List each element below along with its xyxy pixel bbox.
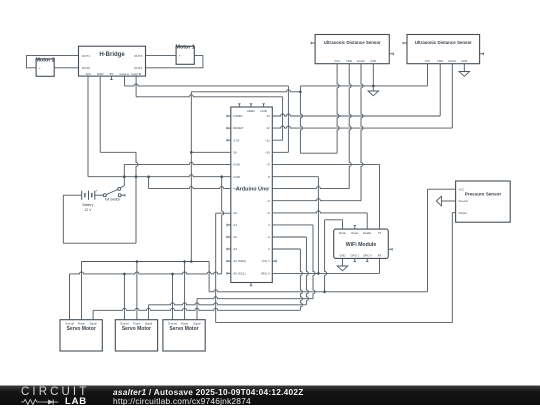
wire 5V trunk (Arduino 5V / H-top power riser / sensor feed, net 5V) <box>191 90 300 262</box>
svg-text:Arduino Uno: Arduino Uno <box>236 186 269 192</box>
WiFi GPIO2 pin stub (no connect) <box>354 258 356 261</box>
wire sensor U3 GND pin to ground <box>463 64 465 72</box>
wire WiFi RX pin down <box>379 258 381 273</box>
kill switch SW1 <box>103 186 125 197</box>
wire kill switch riser to Arduino GND <box>123 177 125 186</box>
svg-text:+: + <box>39 66 41 70</box>
wire ground row v3 to sensor U3 VCC <box>300 64 427 86</box>
wire battery trunk vertical <box>136 152 138 243</box>
ground symbol under sensor U3 <box>459 72 470 77</box>
svg-text:13: 13 <box>266 114 270 118</box>
junction ground bus / servo2 ground <box>123 273 126 276</box>
junction power bus / servo3 power <box>183 260 186 263</box>
svg-text:GND: GND <box>233 175 241 179</box>
svg-text:Pressure Sensor: Pressure Sensor <box>465 192 502 197</box>
wire servo2 Power drop <box>136 262 138 320</box>
junction Vin riser / 12V line <box>147 175 150 178</box>
wire Arduino (RX)0 to junction <box>272 272 318 274</box>
motor M2 <box>36 59 54 76</box>
servo motor M3 <box>60 320 102 351</box>
wire servo2 Ground drop <box>123 274 125 320</box>
svg-text:Ground: Ground <box>458 199 468 203</box>
wire pressure sensor Ground pin <box>441 200 455 202</box>
wire Arduino pin 4 to servo3 Signal (net S3) <box>197 225 315 320</box>
WiFi GPIO0 pin stub (no connect) <box>366 258 368 261</box>
Arduino Uno U4 <box>231 107 272 283</box>
wire battery negative loop <box>63 195 136 243</box>
svg-text:Battery: Battery <box>83 203 94 207</box>
wire OUT2 to motor2 right terminal <box>54 67 78 69</box>
junction sensor U2 GND / ground row <box>372 85 375 88</box>
wire Arduino pin 2 to servo1 Signal (net S1) <box>93 249 302 320</box>
svg-text:Motor 2: Motor 2 <box>35 57 54 63</box>
wire WiFi Power to power bus (net 5V) <box>325 220 343 292</box>
sensor U2 right pin stub <box>389 53 393 55</box>
battery V1 12V <box>82 191 95 200</box>
svg-text:Servo Motor: Servo Motor <box>67 326 96 332</box>
svg-text:12: 12 <box>266 126 270 130</box>
svg-text:A4 (SDA): A4 (SDA) <box>233 259 246 263</box>
wire OUT3 to motor1 + terminal <box>146 55 177 57</box>
wire servo3 Ground drop <box>172 274 174 320</box>
svg-text:~11: ~11 <box>265 138 270 142</box>
svg-text:A1: A1 <box>233 223 237 227</box>
ultrasonic distance sensor U2 <box>315 35 389 64</box>
Arduino left pin stub IOREF (no connect) <box>227 115 231 117</box>
Arduino left pin stub A1 (no connect) <box>227 224 231 226</box>
H-bridge 5V pin stub (no connect) <box>111 76 113 80</box>
Arduino left pin stub RESET (no connect) <box>227 127 231 129</box>
svg-text:12 V: 12 V <box>84 208 92 212</box>
svg-text:GND: GND <box>233 163 241 167</box>
Arduino left pin stub A4 (SDA) (no connect) <box>227 260 231 262</box>
Arduino bottom GND pin stub <box>250 283 252 286</box>
wire WiFi GND pin to ground <box>342 258 344 266</box>
wire Arduino pin 12 to sensor U3 ECHO <box>272 64 452 128</box>
svg-text:A3: A3 <box>233 247 237 251</box>
svg-text:OUT2: OUT2 <box>82 66 91 70</box>
Arduino left pin stub A5 (SCL) (no connect) <box>227 272 231 274</box>
junction 5V trunk / servo power bus <box>190 260 193 263</box>
Arduino top pin stub x=239.3 <box>238 104 240 107</box>
wire Arduino Vin to 12V line <box>149 177 231 189</box>
ultrasonic distance sensor U3 <box>407 35 480 64</box>
svg-text:Ultrasonic Distance Sensor: Ultrasonic Distance Sensor <box>415 40 472 45</box>
svg-text:~6: ~6 <box>266 199 270 203</box>
Arduino left pin stub 3.3V (no connect) <box>227 139 231 141</box>
junction power bus / servo2 power <box>136 260 139 263</box>
wire battery positive to kill switch <box>95 194 104 196</box>
servo motor M5 <box>163 320 205 351</box>
junction battery trunk / 12V line <box>135 175 138 178</box>
H-bridge driver U1 <box>79 46 146 76</box>
Arduino left pin stub A2 (no connect) <box>227 236 231 238</box>
svg-text:A5 (SCL): A5 (SCL) <box>233 271 245 275</box>
motor M1 <box>176 46 194 64</box>
svg-text:H-Bridge: H-Bridge <box>99 52 125 58</box>
wire servo ground bus (net GND) <box>70 177 224 320</box>
wire pin8 trunk vertical <box>317 177 319 274</box>
svg-text:~5: ~5 <box>266 211 270 215</box>
wire H-bridge GND pin jog <box>100 76 136 152</box>
wire sensor U2 TRIG to Arduino pin 7 <box>272 64 351 189</box>
svg-text:A0: A0 <box>233 211 237 215</box>
svg-text:Motor 1: Motor 1 <box>175 45 194 51</box>
CircuitLab footer bar <box>0 385 540 406</box>
ground symbol (left-pointing) at pressure sensor <box>436 196 441 206</box>
svg-text:GND: GND <box>260 109 268 113</box>
svg-text:GND: GND <box>97 72 105 76</box>
svg-text:Kill Switch: Kill Switch <box>105 198 121 202</box>
wire pressure sensor Output to Arduino A0 <box>216 213 456 323</box>
wire Arduino pin ~5 to WiFi Enable <box>272 211 367 229</box>
wire Arduino pin 8 trunk down <box>272 176 318 178</box>
junction kill switch riser / 12V line <box>123 175 126 178</box>
svg-text:12V: 12V <box>85 72 91 76</box>
svg-text:A2: A2 <box>233 235 237 239</box>
svg-text:Ultrasonic Distance Sensor: Ultrasonic Distance Sensor <box>324 40 381 45</box>
wire kill switch riser upper to GND1 row <box>124 162 231 176</box>
WiFi right side pin stub (no connect) <box>388 248 392 250</box>
svg-text:~3: ~3 <box>266 235 270 239</box>
wire Arduino 5V pin to 5V trunk <box>191 151 231 153</box>
svg-text:(RX) 0: (RX) 0 <box>261 271 270 275</box>
svg-text:Servo Motor: Servo Motor <box>122 326 151 332</box>
svg-text:WiFi Module: WiFi Module <box>346 242 377 248</box>
svg-text:(TX) 1: (TX) 1 <box>261 259 270 263</box>
svg-text:~10: ~10 <box>265 150 270 154</box>
svg-text:~9: ~9 <box>266 163 270 167</box>
ground symbol under sensor U2 <box>368 91 379 96</box>
ground symbol under WiFi module <box>337 266 348 271</box>
svg-text:OUT1: OUT1 <box>82 54 91 58</box>
wire Arduino pin ~9 to WiFi TX <box>272 164 379 229</box>
junction ground riser / Arduino GND wire <box>220 175 223 178</box>
junction ground bus / servo3 ground <box>171 273 174 276</box>
WiFi Reset pin stub (no connect) <box>354 226 356 230</box>
wire junction to WiFi RX <box>318 272 379 274</box>
svg-text:Servo Motor: Servo Motor <box>169 326 198 332</box>
junction WiFi power riser / power bus <box>323 291 326 294</box>
svg-text:5V: 5V <box>233 150 237 154</box>
wire OUT1 to motor2 + terminal (left loop) <box>26 56 78 68</box>
svg-text:IOREF: IOREF <box>233 114 242 118</box>
svg-text:+: + <box>96 189 98 193</box>
wire servo power bus (net 5V) <box>82 189 456 320</box>
sensor U3 left pin stub <box>403 42 407 44</box>
svg-text:RESET: RESET <box>233 126 243 130</box>
svg-text:Output: Output <box>458 211 467 215</box>
svg-text:Input A: Input A <box>119 72 130 76</box>
servo motor M4 <box>115 320 157 351</box>
wire servo3 Power drop <box>184 262 186 320</box>
svg-text:+: + <box>179 54 181 58</box>
wire Arduino pin ~3 to servo2 Signal (net S2) <box>149 237 309 320</box>
Arduino top pin stub x=263.6 <box>263 104 265 107</box>
sensor U2 left pin stub <box>311 42 315 44</box>
svg-text:AREF: AREF <box>247 109 255 113</box>
svg-text:Input B: Input B <box>131 72 141 76</box>
wire Arduino pin 13 to sensor U3 TRIG <box>272 64 440 116</box>
wire H-bridge Input A to Arduino pin ~10 (net IA) <box>125 76 289 152</box>
wire H-bridge 12V pin down to battery net <box>88 76 231 177</box>
Arduino pin (TX)1 stub (no connect) <box>272 260 276 262</box>
wire sensor U2 ECHO to Arduino pin ~6 <box>272 64 363 201</box>
svg-text:3.3V: 3.3V <box>233 138 239 142</box>
Arduino left pin stub A3 (no connect) <box>227 248 231 250</box>
svg-text:OUT4: OUT4 <box>134 66 143 70</box>
pressure sensor U6 <box>456 181 511 222</box>
svg-text:VCC: VCC <box>458 187 464 191</box>
wire sensor U2 GND pin to ground <box>372 64 374 91</box>
junction pin8 / RX0 / WiFi RX <box>317 272 320 275</box>
wire v3 vertical to sensor U2 VCC (net 5V) <box>300 64 339 154</box>
wire H-bridge Input B to Arduino pin ~11 (net IB) <box>136 76 283 140</box>
junction 5V trunk / Arduino 5V wire <box>190 151 193 154</box>
junction 5V trunk top / v3 vertical <box>299 91 302 94</box>
svg-text:Vin: Vin <box>233 187 238 191</box>
sensor U3 right pin stub <box>480 53 484 55</box>
WiFi module U5 <box>334 229 389 258</box>
wire motor1 right terminal to OUT4 <box>146 56 203 68</box>
svg-text:OUT3: OUT3 <box>134 54 143 58</box>
Arduino top pin stub x=251.0 <box>250 104 252 107</box>
